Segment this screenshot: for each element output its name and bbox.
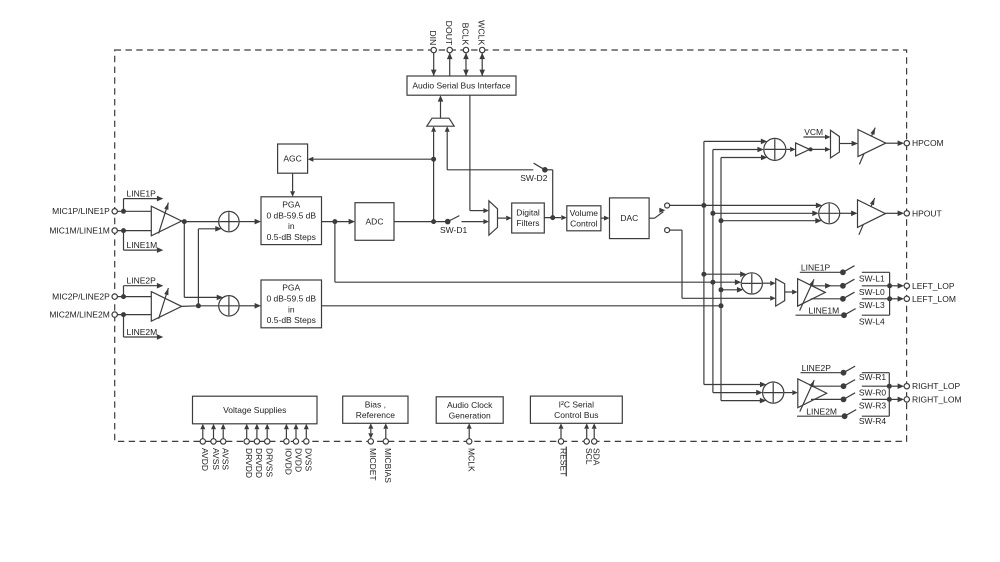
- Digital Filters block: [512, 203, 545, 233]
- pin MIC2P/LINE2P: [52, 292, 117, 302]
- input amp A2: [151, 288, 181, 321]
- svg-text:SW-R0: SW-R0: [859, 388, 887, 398]
- Volume Control block: [567, 206, 601, 231]
- wire S1 to PGA1: [239, 219, 261, 225]
- svg-text:Reference: Reference: [356, 410, 395, 420]
- wire bus2 to HPOUT summer: [713, 211, 819, 217]
- svg-text:SW-D1: SW-D1: [440, 225, 468, 235]
- svg-text:MIC1M/LINE1M: MIC1M/LINE1M: [49, 226, 109, 236]
- pin DRVSS: [265, 424, 275, 478]
- input amp A1: [151, 203, 181, 236]
- svg-text:DRVDD: DRVDD: [244, 448, 254, 478]
- wire AGC input from ADC output node: [308, 157, 434, 162]
- pin DVDD: [293, 424, 303, 472]
- svg-text:MIC2M/LINE2M: MIC2M/LINE2M: [49, 310, 109, 320]
- mux M4 (left line mux): [776, 279, 785, 306]
- Audio Serial Bus Interface U-ASBI: [407, 76, 516, 95]
- svg-text:PGA: PGA: [282, 200, 300, 210]
- wire ADC-tap vertical (node ADCOUT to M1): [431, 126, 436, 221]
- junction dot RIGHT_LOP: [887, 384, 892, 389]
- net stub LINE1M: [121, 228, 163, 253]
- pin WCLK: [477, 20, 487, 76]
- junction dot LEFT_LOP: [887, 283, 892, 288]
- junction dot DACOUT1 on bus1: [701, 203, 706, 208]
- wire AGC to PGA1: [290, 173, 295, 197]
- Bias Reference block: [343, 396, 408, 423]
- svg-text:BCLK: BCLK: [460, 23, 470, 46]
- svg-text:DOUT: DOUT: [444, 21, 454, 46]
- wire MIC2P to amp A2: [117, 296, 151, 298]
- AGC block: [278, 144, 308, 173]
- mux M1 (ADC/bypass to serial out): [427, 118, 454, 126]
- svg-text:MICBIAS: MICBIAS: [383, 448, 393, 483]
- wire M4 to left amp: [785, 290, 798, 295]
- wire LINE2P to SW-R1: [801, 363, 844, 373]
- mux M2 (digital filter input): [489, 201, 498, 235]
- terminal DAC out 1: [665, 203, 670, 208]
- PGA1 block: [261, 197, 322, 245]
- switch SW-L4: [841, 309, 890, 327]
- svg-text:Voltage Supplies: Voltage Supplies: [223, 405, 286, 415]
- terminal DAC out 2: [665, 228, 670, 233]
- switch SW-R0: [841, 380, 890, 398]
- svg-text:SDA: SDA: [592, 448, 602, 466]
- svg-text:AVSS: AVSS: [221, 448, 231, 470]
- svg-text:DRVDD: DRVDD: [254, 448, 264, 478]
- pin SCL: [584, 423, 594, 465]
- wire bus3 to HPOUT summer: [721, 218, 822, 224]
- summer S1: [219, 211, 239, 231]
- svg-text:LEFT_LOP: LEFT_LOP: [912, 281, 955, 291]
- wire DACOUT2 to left-out mux: [670, 230, 776, 301]
- wire A-L bottom output: [811, 298, 843, 300]
- svg-text:Bias ,: Bias ,: [365, 399, 386, 409]
- svg-text:RIGHT_LOM: RIGHT_LOM: [912, 394, 962, 404]
- summer S2: [219, 296, 239, 316]
- switch SW-R3: [841, 393, 890, 411]
- pin DVSS: [304, 424, 314, 472]
- pin HPOUT: [904, 208, 942, 218]
- svg-text:LINE2P: LINE2P: [127, 276, 157, 286]
- junction dot PGA1 out: [332, 219, 337, 224]
- wire MIC2M to amp A2: [117, 314, 151, 316]
- summer S-HPO: [819, 203, 840, 224]
- pin DRVDD: [244, 424, 254, 478]
- svg-text:LINE1M: LINE1M: [809, 306, 840, 316]
- svg-text:Generation: Generation: [449, 410, 491, 420]
- svg-text:in: in: [288, 221, 295, 231]
- wire to RIGHT_LOP pin: [889, 383, 904, 389]
- junction dot bus3 left-out tap: [719, 287, 724, 292]
- net stub LINE2M: [121, 312, 163, 340]
- svg-text:VCM: VCM: [804, 127, 823, 137]
- svg-text:LINE2M: LINE2M: [127, 327, 158, 337]
- svg-text:LINE1P: LINE1P: [801, 262, 831, 272]
- svg-text:MICDET: MICDET: [368, 448, 378, 481]
- wire to LEFT_LOP pin: [890, 283, 904, 289]
- svg-text:DAC: DAC: [620, 213, 638, 223]
- pin AVSS: [221, 424, 231, 471]
- svg-text:LINE1P: LINE1P: [127, 188, 157, 198]
- wire PGA1 bypass (node PGA1OUT): [335, 222, 741, 285]
- wire buffer to mux M3: [809, 147, 830, 152]
- switch SW-R1: [841, 366, 890, 382]
- wire LINE1P to SW-L1: [800, 262, 843, 272]
- svg-text:AVDD: AVDD: [200, 448, 210, 471]
- line amp A-R: [798, 379, 827, 412]
- wire M1 output to ASBI: [438, 95, 444, 118]
- summer S-R: [763, 382, 784, 403]
- junction dot bus2 hpout tap: [710, 211, 715, 216]
- line amp A-L: [798, 279, 826, 311]
- Audio Clock Generation block: [436, 397, 503, 424]
- wire PGA2 bypass (node PGA2OUT): [322, 305, 722, 307]
- svg-text:WCLK: WCLK: [477, 20, 487, 45]
- svg-text:SW-R1: SW-R1: [859, 372, 887, 382]
- I2C Serial Control Bus block: [530, 396, 622, 423]
- junction dot RIGHT_LOM: [887, 397, 892, 402]
- pin LEFT_LOM: [904, 294, 956, 304]
- pin MIC2M/LINE2M: [49, 310, 117, 320]
- bus wire 1 (DAC signal): [704, 139, 767, 388]
- wire M2 to Digital Filters: [498, 216, 512, 221]
- net stub LINE1P: [121, 188, 163, 213]
- junction dot LEFT_LOM: [887, 296, 892, 301]
- wire A1 to summer S2 (cross): [184, 222, 223, 301]
- svg-text:PGA: PGA: [282, 283, 300, 293]
- mux M3 (VCM select): [831, 130, 840, 158]
- wire bus3 to LEFT summer: [721, 287, 743, 293]
- svg-text:DVSS: DVSS: [304, 448, 314, 471]
- pin RIGHT_LOP: [904, 381, 960, 391]
- DAC block: [610, 198, 650, 239]
- junction dot SW-D2 on filter output: [550, 215, 555, 220]
- pin DOUT: [444, 21, 454, 76]
- svg-text:SW-D2: SW-D2: [520, 173, 548, 183]
- svg-text:LINE1M: LINE1M: [127, 240, 158, 250]
- pin MCLK: [467, 423, 477, 472]
- switch SW-R4: [842, 410, 890, 427]
- wire A1 output to summer S1: [182, 220, 219, 223]
- wire S-L to mux M4: [762, 281, 775, 286]
- wire to HPCOM pin: [886, 140, 904, 146]
- bus wire 3 (PGA2 signal): [721, 155, 767, 404]
- svg-text:RIGHT_LOP: RIGHT_LOP: [912, 381, 961, 391]
- bus wire 2 (PGA1 signal): [713, 147, 764, 396]
- pin RESET: [558, 423, 568, 476]
- pin AVDD: [200, 424, 210, 471]
- svg-text:MIC1P/LINE1P: MIC1P/LINE1P: [52, 206, 110, 216]
- wire PGA1 to ADC: [322, 219, 356, 225]
- output amp A-HPC: [858, 128, 886, 165]
- svg-text:SW-L3: SW-L3: [859, 300, 885, 310]
- PGA2 block: [261, 280, 322, 328]
- wire S-HPO to HP amp: [840, 211, 858, 217]
- wire bus1 to LEFT summer: [704, 271, 747, 277]
- wire A-R top output: [811, 385, 844, 387]
- buffer amp B1: [796, 143, 810, 156]
- svg-text:Volume: Volume: [570, 208, 599, 218]
- pin MICBIAS: [383, 423, 393, 483]
- pin RIGHT_LOM: [904, 394, 961, 404]
- summer S-HPC: [764, 138, 786, 160]
- wire S-R to right amp: [784, 390, 798, 395]
- svg-text:LINE2P: LINE2P: [802, 363, 832, 373]
- pin MIC1M/LINE1M: [49, 226, 117, 236]
- svg-text:MCLK: MCLK: [467, 448, 477, 472]
- wire A2 to summer S1 (cross): [198, 226, 221, 306]
- chip boundary (dashed border): [115, 50, 907, 441]
- pin LEFT_LOP: [904, 281, 955, 291]
- wire to RIGHT_LOM pin: [889, 397, 904, 403]
- svg-text:AGC: AGC: [283, 154, 301, 164]
- summer S-L: [741, 273, 762, 294]
- switch SW-DAC (lever): [649, 208, 665, 219]
- junction dot bus1 left-out tap: [701, 272, 706, 277]
- svg-text:SW-R3: SW-R3: [859, 401, 887, 411]
- junction dot ADC out: [431, 219, 436, 224]
- bus wire right-out bracket: [888, 373, 890, 417]
- svg-text:Control: Control: [570, 219, 598, 229]
- bus wire left-out bracket: [889, 272, 891, 315]
- svg-text:I²C Serial: I²C Serial: [559, 399, 595, 409]
- svg-text:IOVDD: IOVDD: [284, 448, 294, 475]
- pin SDA: [592, 423, 602, 466]
- svg-text:MIC2P/LINE2P: MIC2P/LINE2P: [52, 292, 110, 302]
- pin IOVDD: [284, 424, 294, 475]
- junction dot PGA2 bypass on bus3: [719, 303, 724, 308]
- svg-text:Digital: Digital: [516, 208, 540, 218]
- junction dot bus3 hpout tap: [719, 218, 724, 223]
- pin MICDET: [368, 423, 378, 480]
- switch SW-D2: [520, 163, 553, 217]
- svg-text:0 dB-59.5 dB: 0 dB-59.5 dB: [266, 294, 316, 304]
- wire VC to DAC: [601, 216, 610, 221]
- switch SW-L3: [840, 292, 890, 310]
- svg-text:SW-L1: SW-L1: [859, 274, 885, 284]
- wire S2 to PGA2: [239, 303, 261, 309]
- wire DF to Volume Control: [544, 215, 567, 220]
- svg-text:Filters: Filters: [516, 218, 539, 228]
- svg-text:HPCOM: HPCOM: [912, 138, 944, 148]
- junction dot PGA1 bypass on bus2: [710, 280, 715, 285]
- ADC block: [355, 203, 394, 241]
- wire MIC1M to amp A1: [117, 230, 151, 232]
- pin AVSS: [211, 424, 221, 471]
- svg-text:Audio Clock: Audio Clock: [447, 400, 493, 410]
- wire A2 output to summer S2: [182, 305, 219, 308]
- net stub LINE2P: [121, 276, 163, 300]
- wire to LEFT_LOM pin: [890, 296, 904, 302]
- junction dot AGC tap: [431, 157, 436, 162]
- wire ADC output: [394, 221, 448, 223]
- svg-text:DIN: DIN: [428, 30, 438, 45]
- wire DACOUT1 to HPOUT summer: [670, 203, 823, 209]
- svg-text:AVSS: AVSS: [211, 448, 221, 470]
- svg-text:SW-L4: SW-L4: [859, 316, 885, 326]
- svg-text:DVDD: DVDD: [293, 448, 303, 472]
- wire ASBI to DF-mux (DAC data path): [470, 95, 489, 213]
- junction dot A1 out: [182, 219, 187, 224]
- pin DIN: [428, 30, 438, 76]
- wire MIC1P to amp A1: [117, 210, 151, 212]
- wire A-L top output: [811, 283, 843, 289]
- wire LINE1M to SW-L4: [796, 306, 845, 316]
- svg-text:Control Bus: Control Bus: [554, 410, 598, 420]
- pin HPCOM: [904, 138, 944, 148]
- svg-text:0.5-dB Steps: 0.5-dB Steps: [267, 315, 316, 325]
- svg-text:LINE2M: LINE2M: [806, 406, 837, 416]
- net VCM: [803, 127, 830, 139]
- svg-text:in: in: [288, 304, 295, 314]
- switch SW-L0: [840, 279, 890, 297]
- switch SW-D1: [440, 216, 489, 236]
- svg-text:LEFT_LOM: LEFT_LOM: [912, 294, 956, 304]
- pin MIC1P/LINE1P: [52, 206, 117, 216]
- wire LINE2M to SW-R4: [797, 406, 845, 416]
- svg-text:Audio Serial Bus Interface: Audio Serial Bus Interface: [412, 81, 511, 91]
- pin DRVDD: [254, 424, 264, 478]
- output amp A-HPO: [858, 198, 886, 235]
- Voltage Supplies block: [193, 396, 318, 424]
- svg-text:0 dB-59.5 dB: 0 dB-59.5 dB: [266, 210, 316, 220]
- pin BCLK: [460, 23, 470, 76]
- svg-text:HPOUT: HPOUT: [912, 208, 942, 218]
- wire to HPOUT pin: [885, 211, 904, 217]
- junction dot buffer out: [809, 147, 813, 151]
- svg-text:SW-L0: SW-L0: [859, 287, 885, 297]
- wire A-R bottom output: [811, 398, 844, 400]
- switch SW-L1: [840, 266, 890, 284]
- svg-text:DRVSS: DRVSS: [265, 448, 275, 477]
- svg-text:ADC: ADC: [366, 217, 384, 227]
- wire S-HPC to buffer: [786, 147, 796, 152]
- wire M3 to HP amp: [839, 141, 858, 147]
- svg-text:0.5-dB Steps: 0.5-dB Steps: [267, 232, 316, 242]
- junction dot A2 out: [196, 303, 201, 308]
- svg-text:SW-R4: SW-R4: [859, 416, 887, 426]
- wire M1 right input from SW-D2: [445, 126, 534, 170]
